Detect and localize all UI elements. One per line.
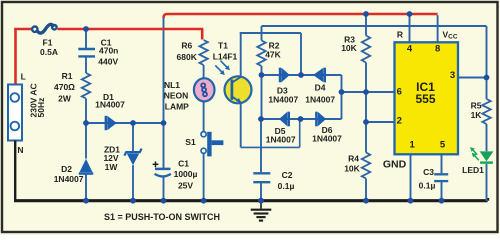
svg-text:0.1µ: 0.1µ — [419, 181, 436, 191]
svg-text:N: N — [17, 145, 23, 155]
svg-text:1N4007: 1N4007 — [54, 174, 84, 184]
svg-text:10K: 10K — [341, 43, 357, 53]
svg-text:1N4007: 1N4007 — [268, 94, 298, 104]
svg-text:47K: 47K — [265, 49, 281, 59]
svg-text:L: L — [21, 72, 26, 82]
svg-text:LAMP: LAMP — [165, 102, 189, 112]
svg-text:8: 8 — [435, 43, 440, 54]
svg-text:680K: 680K — [177, 52, 198, 62]
svg-text:10K: 10K — [344, 163, 360, 173]
svg-text:S1: S1 — [185, 137, 196, 147]
svg-text:C1: C1 — [178, 158, 189, 168]
svg-text:S1 = PUSH-TO-ON SWITCH: S1 = PUSH-TO-ON SWITCH — [104, 212, 220, 222]
svg-text:1W: 1W — [105, 162, 119, 172]
svg-text:470Ω: 470Ω — [54, 82, 75, 92]
svg-text:F1: F1 — [43, 38, 53, 48]
svg-text:4: 4 — [407, 43, 413, 54]
svg-text:3: 3 — [450, 70, 455, 81]
svg-text:1N4007: 1N4007 — [266, 134, 296, 144]
svg-text:NL1: NL1 — [164, 80, 180, 90]
svg-text:D4: D4 — [315, 82, 326, 92]
svg-text:2W: 2W — [58, 93, 72, 103]
svg-text:D2: D2 — [61, 164, 72, 174]
svg-text:1K: 1K — [471, 110, 483, 120]
svg-text:6: 6 — [397, 86, 402, 97]
svg-text:R4: R4 — [348, 153, 359, 163]
svg-text:470n: 470n — [99, 46, 118, 56]
svg-text:0.1µ: 0.1µ — [278, 181, 295, 191]
svg-text:50Hz: 50Hz — [36, 98, 46, 118]
svg-text:T1: T1 — [218, 40, 228, 50]
svg-text:1: 1 — [410, 140, 416, 151]
svg-text:GND: GND — [383, 158, 407, 170]
svg-text:L14F1: L14F1 — [213, 51, 238, 61]
svg-text:R6: R6 — [181, 40, 192, 50]
svg-text:C3: C3 — [423, 167, 434, 177]
svg-text:25V: 25V — [178, 180, 193, 190]
svg-text:1N4007: 1N4007 — [312, 134, 342, 144]
svg-text:R5: R5 — [471, 100, 482, 110]
svg-text:R1: R1 — [62, 71, 73, 81]
svg-text:2: 2 — [397, 116, 402, 127]
svg-text:1000µ: 1000µ — [174, 169, 198, 179]
svg-text:1N4007: 1N4007 — [95, 99, 125, 109]
svg-text:555: 555 — [415, 92, 435, 106]
svg-text:LED1: LED1 — [462, 165, 484, 175]
svg-text:0.5A: 0.5A — [40, 47, 58, 57]
svg-text:R: R — [397, 30, 403, 40]
svg-text:NEON: NEON — [164, 91, 189, 101]
svg-text:C2: C2 — [282, 170, 293, 180]
svg-text:5: 5 — [440, 139, 446, 150]
svg-text:440V: 440V — [98, 56, 118, 66]
svg-text:1N4007: 1N4007 — [305, 95, 335, 105]
